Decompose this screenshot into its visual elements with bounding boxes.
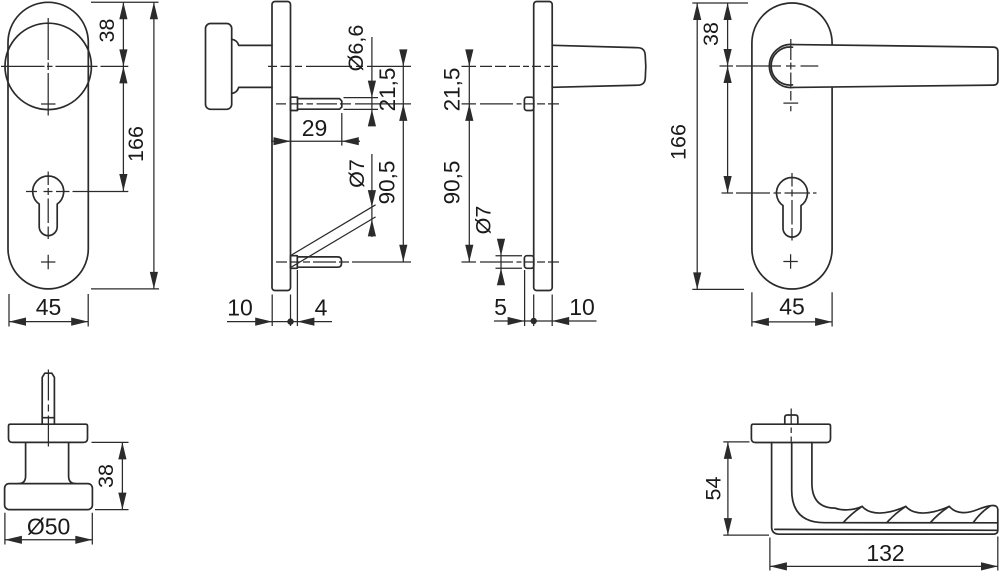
54 dimension fig6 [723,442,769,535]
knob vertical centerline fig1 [47,18,49,116]
keyhole (euro profile cylinder) fig4 [776,177,807,237]
lever outer silhouette fig6 [772,443,998,535]
svg-text:166: 166 [124,126,148,162]
bottom extension lines fig2 [272,270,297,326]
45 dimension fig4 [752,292,832,326]
knob stem fig2 [232,39,272,93]
lever axis centerline fig3 [462,65,559,67]
svg-text:21,5: 21,5 [440,68,465,112]
diameter 50 dimension fig5 [5,513,92,545]
svg-text:38: 38 [95,19,119,43]
bottom extension line fig4 [692,288,744,290]
keyhole horizontal centerline fig1 [26,191,128,193]
diameter 7 dimension line fig3 [500,239,502,285]
upper screw tip fig3 [524,97,533,110]
lower screw-hole cross fig4 [783,254,797,268]
svg-text:Ø7: Ø7 [472,206,496,235]
svg-text:166: 166 [666,124,690,160]
junction dot fig3 [531,318,537,324]
spindle stub fig6 [785,415,798,424]
45 dimension fig1 [9,294,88,327]
lower screw bore extension lines fig3 [496,256,523,269]
keyhole vertical centerline fig1 [47,172,49,240]
lever axis vertical centerline fig4 [790,39,792,111]
svg-text:90,5: 90,5 [439,161,464,205]
lever grip side view fig3 [552,45,646,87]
grip groove line 3 fig6 [930,506,949,522]
lower screw centerline fig2 [276,261,411,263]
plate (stadium shape) fig1 [8,2,88,289]
svg-text:5: 5 [494,294,507,320]
upper screw-hole tick fig1 [41,103,56,105]
knob rose fig5 [9,424,88,442]
21,5 and 90,5 dimension line fig2 [402,50,404,262]
junction dot fig2 [287,318,293,324]
29 dimension fig2 [271,113,360,146]
lower screw-hole cross fig1 [41,255,55,269]
diameter 6,6 dimension line fig2 [371,37,373,126]
knob horizontal centerline fig1 [1,65,128,67]
38 dimension fig5 [92,442,129,509]
outer dimension line (166) fig4 [696,3,698,289]
lever vertical centerline fig6 [790,409,792,442]
keyhole horizontal centerline fig4 [722,192,817,194]
lever bar fig4 [794,45,998,88]
grip groove line 1 fig6 [843,506,862,522]
svg-text:54: 54 [701,477,725,501]
knob vertical centerline fig5 [47,370,49,447]
keyhole vertical centerline fig4 [791,173,793,241]
bottom dimension line 10 / 4 fig2 [227,321,332,323]
upper screw-hole tick fig4 [783,102,798,104]
svg-text:Ø6,6: Ø6,6 [344,25,368,72]
lower screw centerline fig3 [462,261,560,263]
top extension line fig4 [692,2,748,4]
plate side view fig2 [272,2,291,291]
knob head fig2 [206,24,232,110]
svg-text:38: 38 [699,22,723,46]
bottom extension line fig1 [91,288,159,290]
svg-text:38: 38 [94,464,118,488]
plate side view fig3 [534,2,553,291]
bottom extension lines fig3 [525,270,553,326]
lever axis horizontal centerline fig4 [720,65,819,67]
upper screw diameter extension lines fig2 [344,98,379,110]
upper screw centerline fig2 [276,103,411,105]
svg-text:29: 29 [302,115,328,141]
svg-text:90,5: 90,5 [375,161,400,205]
upper screw tip section fig2 [291,97,298,110]
grip underside top line fig6 [775,528,998,531]
oblique extension lines for lower screw bore fig2 [292,205,376,267]
lever bend inner line fig6 [792,443,998,523]
svg-text:Ø50: Ø50 [27,514,70,540]
lever hub inner arc fig4 [771,47,792,85]
bottom dimension line 5 / 10 fig3 [494,320,597,322]
svg-text:45: 45 [36,294,62,320]
upper screw centerline fig3 [462,103,560,105]
lower screw shaft fig2 [297,257,341,267]
svg-text:21,5: 21,5 [375,68,400,112]
svg-text:4: 4 [315,295,328,321]
spindle fig5 [42,373,54,424]
knob axis centerline fig2 [268,65,411,67]
knob rose circle fig1 [5,23,91,109]
inner dimension line (38 + chain) fig4 [727,3,729,193]
knob head fig5 [5,484,93,510]
lower screw tip fig3 [524,256,533,269]
knob neck fig5 [19,442,76,483]
diameter 7 dimension line fig2 [371,154,373,237]
outer dimension line (166) fig1 [153,2,155,289]
lever rose fig6 [751,424,830,442]
svg-text:10: 10 [227,295,253,321]
plate (stadium shape) fig4 [752,3,832,289]
svg-text:Ø7: Ø7 [345,159,369,188]
21,5 and 90,5 dimension line fig3 [468,50,470,262]
132 dimension fig6 [770,537,998,571]
inner dimension line (38 + chain) fig1 [122,2,124,191]
lower screw tip section fig2 [291,256,298,269]
top extension line fig1 [91,1,159,3]
svg-text:45: 45 [779,294,805,320]
svg-text:10: 10 [569,294,595,320]
grip groove line 2 fig6 [887,506,906,522]
svg-text:132: 132 [866,540,904,566]
upper screw shaft fig2 [298,99,342,110]
grip groove line 4 fig6 [974,506,990,522]
keyhole (euro profile cylinder) fig1 [33,176,64,236]
lever hub outer arc fig4 [769,44,793,87]
